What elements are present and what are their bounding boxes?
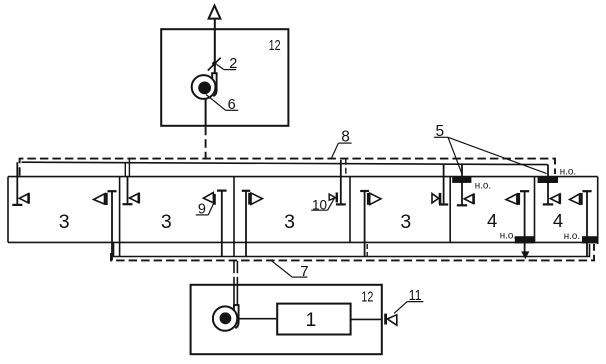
- label 10 leader: [328, 199, 335, 211]
- wall left end: [7, 177, 9, 243]
- fire damper D2 (н.о.): [538, 176, 558, 183]
- svg-text:3: 3: [59, 211, 70, 233]
- exhaust outlet arrow (roof): [209, 6, 221, 19]
- svg-text:1: 1: [305, 309, 316, 331]
- wall rooms 3|4: [449, 177, 451, 243]
- svg-text:4: 4: [553, 210, 563, 231]
- fan (exhaust): [213, 306, 237, 330]
- wall right end: [597, 177, 599, 244]
- label 7 leader: [271, 261, 292, 277]
- label 8 leader: [331, 143, 338, 158]
- svg-text:6: 6: [228, 97, 236, 113]
- wall rooms 3|3: [119, 177, 121, 257]
- svg-text:н.о.: н.о.: [475, 181, 491, 192]
- line silencer to outlet: [351, 318, 382, 320]
- svg-text:9: 9: [198, 201, 206, 217]
- wall rooms 3|3 (second): [233, 177, 235, 257]
- supply pipe room4#2 (with fire damper): [547, 165, 549, 205]
- supply grille S6 room3#3 right (valve 10): [340, 160, 342, 204]
- duct 7 (exhaust main) solid line: [114, 242, 590, 256]
- exhaust unit box 12 (bottom): [191, 285, 382, 354]
- pipe below fan (inside box): [205, 99, 207, 126]
- svg-text:11: 11: [409, 287, 422, 304]
- rooms band: top wall: [8, 176, 598, 178]
- dashed companion below room for S7: [366, 244, 368, 257]
- connector duct to exhaust unit (double dashed): [233, 261, 235, 273]
- svg-text:12: 12: [269, 38, 281, 54]
- svg-text:8: 8: [341, 128, 350, 145]
- fire damper D3 (н.о.) bottom: [515, 236, 535, 243]
- pipe from arrow down to fan outlet: [214, 19, 216, 73]
- exhaust grille S4 room3#2 (valve 9): [221, 191, 223, 257]
- svg-text:12: 12: [361, 289, 373, 306]
- supply grille S3 room3#2: drop pipe: [124, 163, 126, 177]
- supply grille S1 room3#1: drop pipe: [16, 162, 18, 205]
- label 5 leader to damper 2: [448, 137, 547, 173]
- rooms band: bottom wall: [8, 241, 598, 243]
- fire damper D1 (н.о.): [452, 176, 471, 183]
- exhaust stack S5 room3#3 left: [245, 191, 247, 257]
- svg-text:3: 3: [400, 211, 411, 233]
- label 11 leader: [394, 302, 407, 314]
- fire damper D4 (н.о.) bottom: [582, 236, 598, 243]
- label 9 leader: [208, 203, 214, 215]
- svg-text:10: 10: [312, 198, 327, 213]
- duct 8 solid lower line: [22, 162, 548, 164]
- flow arrow below damper D3: [521, 251, 529, 259]
- svg-text:н.о.: н.о.: [564, 231, 580, 242]
- dashed drop near S6: [345, 159, 347, 177]
- exhaust pipe room4#1 (with bottom damper): [524, 191, 526, 251]
- svg-text:2: 2: [229, 56, 237, 72]
- svg-text:7: 7: [300, 263, 308, 280]
- supply unit box 12 (top): [161, 29, 288, 126]
- supply grille S8 room3#4 right: [443, 164, 445, 205]
- exhaust stack S7 room3#4 left: [364, 191, 366, 257]
- svg-text:н.о.: н.о.: [500, 230, 516, 241]
- wall rooms 4|4: [534, 177, 536, 243]
- svg-text:н.о.: н.о.: [560, 166, 576, 177]
- duct 8 (supply main, dashed): [20, 159, 555, 176]
- label 2 leader: [217, 65, 224, 70]
- wall rooms 3|3 (third): [349, 177, 351, 243]
- silencer box 1: [277, 304, 350, 335]
- label 6 leader: [206, 95, 226, 111]
- line fan to silencer 1: [237, 318, 277, 320]
- duct 7 dashed line: [111, 244, 594, 260]
- dashed pipe from box to duct 8: [205, 127, 207, 159]
- svg-text:3: 3: [161, 211, 172, 233]
- exhaust grille S2 room3#1: pipe with T-top: [111, 191, 113, 260]
- supply pipe room4#1 (with fire damper): [461, 165, 463, 205]
- fan 6 (supply fan): [192, 75, 216, 99]
- exhaust pipe room4#2 (with bottom damper): [586, 191, 588, 256]
- label 5 leader to damper 1: [448, 137, 462, 174]
- svg-text:3: 3: [284, 211, 295, 233]
- valve 2 (slash across pipe): [208, 58, 221, 71]
- svg-text:4: 4: [487, 210, 497, 231]
- outlet valve 11: [384, 314, 387, 325]
